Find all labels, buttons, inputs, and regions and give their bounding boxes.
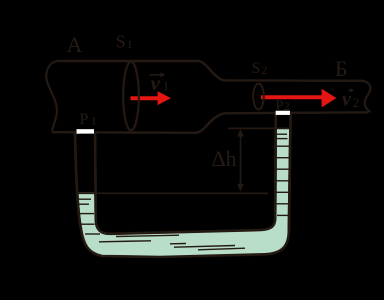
liquid level line right (y=128.4) bbox=[228, 127, 289, 129]
manometer U-tube (green liquid body) bbox=[75, 114, 291, 257]
left arm interior (empty above liquid) bbox=[76, 134, 94, 193]
svg-text:Б: Б bbox=[335, 56, 348, 81]
delta-h measurement arrow bbox=[237, 129, 244, 192]
red arrow v2 bbox=[261, 89, 336, 108]
svg-text:v: v bbox=[342, 89, 352, 111]
white opening P1 (over bottom line) bbox=[77, 129, 94, 133]
left arm wall redraw bbox=[75, 132, 96, 229]
cross-section ellipse S2 bbox=[253, 84, 264, 110]
svg-text:v: v bbox=[151, 71, 161, 95]
svg-text:А: А bbox=[67, 32, 83, 57]
svg-text:2: 2 bbox=[284, 99, 290, 113]
white opening P1 bbox=[77, 129, 95, 133]
narrowing bottom curve + narrow pipe bottom edge bbox=[197, 112, 369, 133]
svg-text:S: S bbox=[116, 31, 126, 51]
wide pipe left wavy end bbox=[46, 61, 57, 131]
liquid hatch lines left arm bbox=[77, 199, 100, 234]
cross-section ellipse S1 bbox=[123, 62, 139, 131]
white opening P2 (over bottom line) bbox=[276, 111, 290, 115]
vector hat over v1 bbox=[149, 72, 165, 77]
liquid hatch lines bottom tube bbox=[99, 235, 245, 250]
svg-text:2: 2 bbox=[261, 63, 267, 77]
right arm wall redraw bbox=[275, 114, 290, 231]
red arrow v1 bbox=[131, 91, 171, 105]
liquid level line left (y=193.3) bbox=[77, 192, 268, 194]
svg-text:Δh: Δh bbox=[212, 146, 237, 171]
svg-text:1: 1 bbox=[127, 37, 133, 51]
svg-text:1: 1 bbox=[163, 79, 170, 94]
liquid hatch lines right arm bbox=[276, 134, 289, 215]
svg-text:P: P bbox=[276, 98, 284, 113]
svg-text:1: 1 bbox=[91, 113, 97, 127]
narrow pipe right wavy end bbox=[363, 81, 371, 113]
wide pipe top edge + narrowing + narrow pipe top edge bbox=[57, 61, 364, 81]
vector hat over v2 bbox=[349, 88, 355, 92]
svg-text:S: S bbox=[252, 60, 261, 77]
white opening P2 bbox=[276, 111, 290, 115]
svg-text:2: 2 bbox=[353, 95, 360, 110]
right arm interior (empty above liquid) bbox=[276, 115, 290, 128]
svg-text:P: P bbox=[80, 111, 89, 128]
wide pipe bottom edge bbox=[52, 131, 197, 134]
